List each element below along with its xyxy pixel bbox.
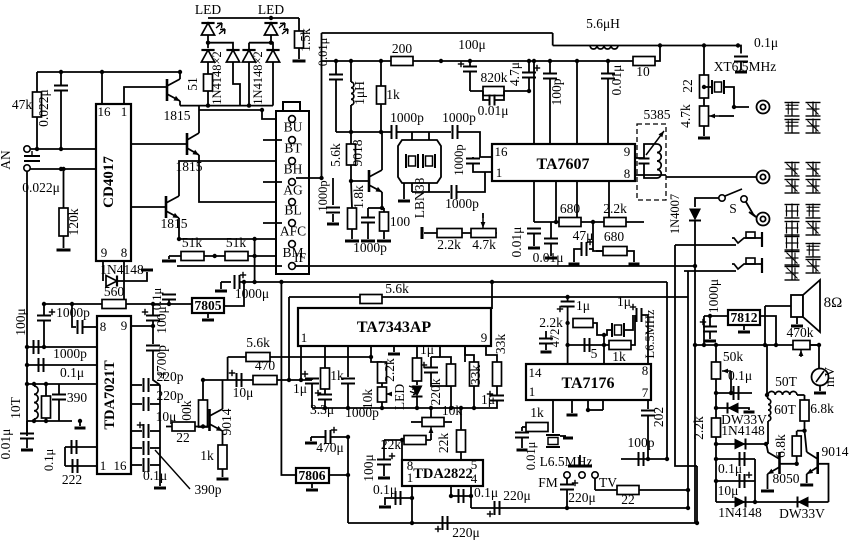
wire meter gnd xyxy=(819,386,821,392)
wire 1k t right xyxy=(631,315,635,345)
wire 0.1u2 row xyxy=(451,495,471,497)
resistor 10k h xyxy=(422,418,444,427)
capacitor 1000p low xyxy=(452,185,457,199)
junction xyxy=(565,343,569,347)
wire 7812 in up xyxy=(703,316,705,345)
wire 10kh right xyxy=(444,421,452,423)
IC TDA7021T xyxy=(97,316,131,474)
capacitor 5 xyxy=(585,338,590,352)
junction xyxy=(122,302,126,306)
capacitor 0.01u 820k xyxy=(490,95,495,106)
wire 33kb bot xyxy=(496,386,498,395)
junction xyxy=(44,382,48,386)
capacitor cap c xyxy=(144,441,149,455)
svg-text:0.1μ: 0.1μ xyxy=(728,368,752,383)
label cjk 音 xyxy=(785,162,800,177)
junction xyxy=(25,382,29,386)
IC TA7343AP xyxy=(298,308,491,346)
wire y508 xyxy=(471,507,566,509)
svg-text:560: 560 xyxy=(104,284,125,299)
junction xyxy=(554,220,558,224)
wire LED top rail xyxy=(208,17,299,19)
wire 100 top xyxy=(383,208,385,212)
resistor 680 a xyxy=(559,218,581,227)
connector power in xyxy=(757,213,770,226)
junction xyxy=(449,494,453,498)
label DW33V a xyxy=(721,412,767,427)
wire 47k top xyxy=(36,72,38,92)
svg-text:0.01μ: 0.01μ xyxy=(478,103,509,118)
junction xyxy=(686,488,690,492)
label DW33V bottom xyxy=(779,506,825,521)
svg-text:200: 200 xyxy=(392,41,413,56)
wire 9014r collector xyxy=(805,431,807,452)
label 51k a xyxy=(182,235,203,250)
svg-text:100μ: 100μ xyxy=(13,308,28,336)
wire AG cap down xyxy=(332,178,334,205)
wire drop 603b xyxy=(602,400,604,410)
wire TA7607 pin drop x609 xyxy=(608,181,610,222)
wire bus1 x667 xyxy=(666,282,668,459)
resistor 4.7k xt xyxy=(700,106,709,126)
svg-text:1N4148×2: 1N4148×2 xyxy=(251,51,265,105)
wire cap-bus y404 xyxy=(150,403,160,405)
label 0.1u 7805 xyxy=(150,288,164,311)
ground 7806 xyxy=(306,489,318,492)
ground 4.7k xyxy=(698,137,710,140)
wire 9018 emitter xyxy=(381,192,383,208)
wire pin top x577 xyxy=(576,61,578,144)
wire y380 row xyxy=(203,379,312,381)
switch S xyxy=(719,189,747,202)
svg-text:60T: 60T xyxy=(774,402,797,417)
label 47k xyxy=(12,97,33,112)
wire 001b gnd xyxy=(550,245,552,257)
capacitor 0.01u input xyxy=(329,75,343,80)
wire audio lead xyxy=(666,176,756,178)
LED D2 xyxy=(264,23,288,35)
label 47u xyxy=(573,228,594,243)
label 390 xyxy=(67,390,88,405)
svg-text:10T: 10T xyxy=(8,396,23,419)
svg-text:1: 1 xyxy=(100,458,107,473)
label 51 xyxy=(185,77,200,91)
connector block shell xyxy=(276,102,309,274)
junction xyxy=(439,59,443,63)
svg-text:1000p: 1000p xyxy=(442,110,476,125)
ground 8050 xyxy=(761,490,774,493)
svg-text:2.2k: 2.2k xyxy=(603,201,627,216)
wire pair2 top xyxy=(249,43,273,49)
svg-text:51k: 51k xyxy=(226,235,247,250)
wire drop 325 xyxy=(324,346,326,368)
wire 2.2k right xyxy=(593,323,604,335)
label 1.8k xyxy=(351,185,366,209)
junction xyxy=(763,343,767,347)
svg-text:1N4148: 1N4148 xyxy=(718,505,762,520)
connector pin BM xyxy=(289,241,296,248)
label 220u b xyxy=(452,525,480,540)
wire 1ud3 bot xyxy=(494,401,497,409)
connector video out xyxy=(757,101,770,114)
wire y345 row xyxy=(568,344,609,346)
wire 001b top xyxy=(550,222,552,238)
wire 680b left xyxy=(593,249,603,251)
wire 390 bottom xyxy=(45,418,47,421)
capacitor 1000u mid xyxy=(235,272,247,289)
svg-text:202: 202 xyxy=(651,407,666,427)
wire top rail y72 xyxy=(37,71,180,73)
label 1N4148 bottom xyxy=(718,505,762,520)
svg-text:LED: LED xyxy=(392,384,407,410)
svg-text:100μ: 100μ xyxy=(154,306,169,334)
svg-text:220p: 220p xyxy=(157,369,184,384)
capacitor 220u b xyxy=(435,516,448,532)
wire xtal left xyxy=(704,86,712,88)
wire 47u branch xyxy=(589,222,593,249)
svg-text:1000μ: 1000μ xyxy=(235,286,269,301)
label 9014 L xyxy=(219,408,234,435)
ground tank stub xyxy=(75,427,86,430)
label 10k pot xyxy=(360,389,375,410)
wire bar stub xyxy=(579,455,581,466)
wire 8050 collector xyxy=(767,445,769,452)
wire 202 top xyxy=(647,400,649,409)
wire 100p x550 b xyxy=(549,79,551,145)
wire 22kb top xyxy=(460,408,462,430)
svg-text:0.1μ: 0.1μ xyxy=(754,35,778,50)
svg-text:47μ: 47μ xyxy=(573,228,594,243)
wire dw33v gnd xyxy=(744,408,749,410)
wire Q2 collector xyxy=(198,106,200,133)
wire y357 row xyxy=(228,356,371,358)
ground 0.01u a xyxy=(528,247,540,250)
wire 100p x550 xyxy=(549,61,551,74)
junction xyxy=(349,179,353,183)
wire y447 el xyxy=(64,447,66,466)
label BU xyxy=(284,120,303,135)
label 2.2k pot xyxy=(437,237,461,252)
ground AG cap xyxy=(327,223,339,226)
svg-text:AFC: AFC xyxy=(280,224,306,239)
capacitor 0.1u r2 xyxy=(740,452,745,466)
label 0.022u lower xyxy=(22,180,60,195)
label 820k xyxy=(481,70,508,85)
wire x608 a xyxy=(607,61,609,74)
junction xyxy=(269,41,273,45)
label 22k a xyxy=(381,437,402,452)
wire x716 bus b xyxy=(715,379,717,418)
wire y410 xyxy=(588,409,603,411)
resistor 10 xyxy=(633,57,655,66)
wire 120k bottom xyxy=(63,236,65,248)
svg-text:9014: 9014 xyxy=(219,408,234,435)
svg-text:1k: 1k xyxy=(330,368,344,383)
svg-text:4: 4 xyxy=(471,471,478,486)
svg-text:8: 8 xyxy=(100,319,107,334)
junction xyxy=(565,506,569,510)
wire 10kh down xyxy=(430,434,432,440)
junction xyxy=(151,324,155,328)
ground 1.8k xyxy=(345,240,359,243)
transistor Q3 1815 xyxy=(166,196,179,218)
label 5.6k fe xyxy=(328,143,343,167)
wire rail304 xyxy=(44,303,192,305)
svg-text:7812: 7812 xyxy=(731,310,758,325)
label 1000u right xyxy=(706,279,721,313)
junction xyxy=(334,59,338,63)
svg-text:L6.5MHz: L6.5MHz xyxy=(643,309,657,358)
junction xyxy=(213,254,217,258)
wire 33ka top xyxy=(465,346,474,362)
resistor 51 xyxy=(204,74,213,91)
junction xyxy=(565,321,569,325)
wire LED1 bottom xyxy=(207,35,209,48)
wire coil joint xyxy=(767,395,768,399)
junction xyxy=(269,16,273,20)
wire drop 394 xyxy=(393,346,395,352)
arrow 4.7k wiper xyxy=(709,114,719,119)
svg-text:1.8k: 1.8k xyxy=(351,185,366,209)
wire 1000p2 row xyxy=(27,346,97,348)
svg-text:IF: IF xyxy=(294,250,306,265)
wire pin1 up xyxy=(124,87,166,104)
svg-text:50k: 50k xyxy=(723,349,744,364)
wire y132 b xyxy=(397,131,451,133)
wire LBN38 gnd xyxy=(403,183,405,199)
svg-text:0.01μ: 0.01μ xyxy=(609,65,624,96)
label 1k t xyxy=(612,349,626,364)
svg-text:1815: 1815 xyxy=(161,216,188,231)
svg-text:1μ: 1μ xyxy=(481,392,495,407)
wire 33ka bot xyxy=(473,386,475,408)
wire 100u amp top xyxy=(383,440,385,460)
wire x608 b xyxy=(607,79,609,145)
label 0.01u a xyxy=(509,227,524,258)
diode 1N4148 c xyxy=(242,50,255,62)
svg-text:1N4148: 1N4148 xyxy=(721,423,765,438)
svg-text:120k: 120k xyxy=(66,208,81,235)
ground 680 b xyxy=(629,263,640,266)
junction xyxy=(708,314,712,318)
wire fm cap xyxy=(566,478,568,484)
junction xyxy=(410,521,414,525)
label 8050 xyxy=(773,471,800,486)
ground 9014 r xyxy=(800,484,813,487)
wire coil top xyxy=(766,345,768,395)
label cjk 源 xyxy=(785,221,800,236)
IC 7812 xyxy=(728,310,760,325)
label LED left xyxy=(195,2,221,17)
capacitor 222 xyxy=(73,459,78,473)
wire drop 572 xyxy=(571,400,573,413)
label 10 xyxy=(636,64,650,79)
capacitor 47u xyxy=(582,239,594,256)
wire 820k cap loop xyxy=(483,91,489,100)
ground diode xyxy=(141,269,153,272)
label 0.01u b xyxy=(533,250,564,265)
label AG xyxy=(283,183,303,198)
junction xyxy=(178,70,182,74)
capacitor 0.022u upper xyxy=(54,86,68,91)
resistor 680 b xyxy=(603,247,627,256)
wire 1u p1 top xyxy=(311,379,313,381)
svg-text:100p: 100p xyxy=(628,435,655,450)
wire 10kh left xyxy=(411,421,422,423)
wire y192 xyxy=(412,191,450,193)
wire drop 417 xyxy=(416,346,418,358)
wire drop 486 xyxy=(486,346,497,362)
junction xyxy=(753,500,757,504)
connector pin AFC xyxy=(289,220,296,227)
wire y430 xyxy=(797,430,805,432)
svg-text:16: 16 xyxy=(495,144,509,159)
wire 7812 gnd xyxy=(743,325,745,330)
junction xyxy=(602,333,606,337)
label 0.1u top xyxy=(754,35,778,50)
junction xyxy=(646,457,650,461)
svg-text:470k: 470k xyxy=(787,325,814,340)
junction xyxy=(490,280,494,284)
svg-text:220μ: 220μ xyxy=(452,525,480,540)
connector pin BL xyxy=(289,199,296,206)
junction xyxy=(369,355,373,359)
wire cap-bus y385 xyxy=(150,384,160,386)
capacitor 1u t1 xyxy=(557,302,575,313)
label 1000p fe2 xyxy=(442,110,476,125)
svg-text:5.6k: 5.6k xyxy=(385,281,409,296)
junction xyxy=(606,59,610,63)
label 2.2k r xyxy=(691,416,706,440)
label 1u d2 xyxy=(420,342,434,357)
junction xyxy=(565,295,569,299)
discriminator 5385 box xyxy=(637,124,666,200)
junction xyxy=(206,41,210,45)
ground 0.1u amp xyxy=(379,506,391,509)
IC TA7176 xyxy=(526,363,651,400)
svg-text:CD4017: CD4017 xyxy=(101,156,117,208)
svg-text:XT6.5MHz: XT6.5MHz xyxy=(714,59,777,74)
wire 1000u r top xyxy=(709,316,711,327)
label 472 xyxy=(548,329,562,348)
wire 470u gnd xyxy=(310,437,312,441)
label cjk 输 xyxy=(806,102,821,117)
label 2.2k b xyxy=(603,201,627,216)
transistor Q1 1815 xyxy=(167,79,180,101)
wire 100uR top xyxy=(152,304,154,316)
resistor 2.2k r xyxy=(712,418,721,437)
wire y447 row xyxy=(65,446,97,448)
wire 7805 gnd xyxy=(207,313,209,318)
label L6.5MHz b xyxy=(540,454,593,469)
resistor 5.6k mid xyxy=(360,295,382,304)
svg-text:1000p: 1000p xyxy=(316,180,330,211)
junction xyxy=(693,343,697,347)
wire cap0022a top xyxy=(60,72,62,86)
label 220p b xyxy=(157,388,184,403)
resistor 2.2k t xyxy=(573,319,593,328)
wire y481 xyxy=(716,480,755,482)
junction xyxy=(459,406,463,410)
transistor 9018 xyxy=(369,170,382,192)
label cjk 输4 xyxy=(806,243,821,258)
junction xyxy=(575,59,579,63)
wire 0.1u amp row xyxy=(390,497,412,499)
label 22 L xyxy=(176,430,190,445)
label cjk 输2 xyxy=(806,162,821,177)
junction xyxy=(665,457,669,461)
diode 1N4148 d xyxy=(266,50,279,62)
junction xyxy=(279,280,283,284)
wire right bus xyxy=(159,385,161,486)
diode LED ind xyxy=(408,384,422,396)
svg-text:390p: 390p xyxy=(195,482,222,497)
label 50k xyxy=(723,349,744,364)
wire pin8 out xyxy=(635,174,666,176)
wire 1ud2 top xyxy=(431,356,440,358)
svg-text:2.2k: 2.2k xyxy=(382,358,397,382)
label BM xyxy=(282,245,303,260)
wire cap emitter top xyxy=(367,208,369,218)
wire LBN38 in top xyxy=(411,132,413,140)
wire 0.1u 7805 down xyxy=(168,300,170,304)
IC 7805 xyxy=(192,298,224,313)
wire TA7607 pin drop x577 xyxy=(576,181,578,222)
label 390p xyxy=(195,482,222,497)
wire 7805 in xyxy=(224,282,244,306)
wire shunt bottom xyxy=(473,164,492,173)
svg-text:TA7343AP: TA7343AP xyxy=(357,319,432,336)
label 8ohm xyxy=(824,295,843,311)
wire LBN38 out bottom xyxy=(428,183,430,192)
wire 820k row xyxy=(470,90,529,92)
wire 220k bot xyxy=(450,386,452,408)
ground LBN38 xyxy=(398,200,410,203)
capacitor 1u d3 xyxy=(487,391,504,401)
label 470u xyxy=(316,440,344,455)
label cjk 立 xyxy=(785,236,800,251)
wire tv down xyxy=(594,478,596,490)
label 470 xyxy=(255,358,276,373)
svg-text:33k: 33k xyxy=(468,365,483,386)
svg-text:4.7k: 4.7k xyxy=(678,104,693,128)
wire to BU xyxy=(262,110,282,119)
label 9018 xyxy=(350,139,365,166)
capacitor 100u amp xyxy=(377,453,395,465)
wire speaker gnd stub xyxy=(796,317,798,324)
wire res drop 553 xyxy=(552,400,554,433)
svg-text:1000p: 1000p xyxy=(452,144,466,175)
ground 47u xyxy=(569,263,580,266)
resistor 6.8k a xyxy=(800,400,809,421)
junction xyxy=(35,147,39,151)
svg-text:mV: mV xyxy=(822,367,837,388)
resistor 47k xyxy=(33,92,42,117)
label 222 xyxy=(62,472,82,487)
wire 1k-3.3u xyxy=(324,389,326,395)
label 51k b xyxy=(226,235,247,250)
label cjk 出3 xyxy=(806,259,821,274)
wire 51k gnd stub xyxy=(168,256,170,259)
connector pin BU xyxy=(289,116,296,123)
junction xyxy=(693,264,697,268)
svg-text:2.2k: 2.2k xyxy=(437,237,461,252)
wire x765 xyxy=(764,306,766,345)
label cjk 出 xyxy=(806,119,821,134)
wire tank gnd stub xyxy=(79,421,81,426)
wire rail end up xyxy=(655,46,660,62)
junction xyxy=(714,391,718,395)
